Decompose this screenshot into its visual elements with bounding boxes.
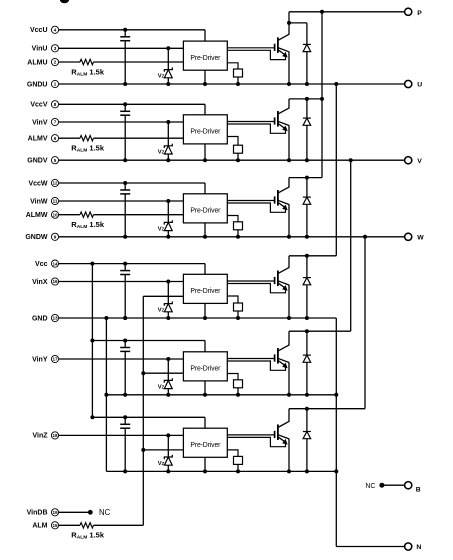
junction zener Y on rail — [166, 393, 170, 397]
junction GND to GND bus — [104, 316, 108, 320]
transistor QY collector arm — [278, 345, 290, 351]
diode DU freewheel — [303, 23, 311, 84]
label VZ — [158, 308, 165, 314]
label RALM 1.5k — [71, 144, 105, 154]
junction pre-driver X riser on rail — [203, 316, 207, 320]
wire ALM feed to Z pre-driver — [143, 449, 183, 451]
wire QW collector jog to P bus — [289, 177, 322, 179]
resistor sense network of Y — [227, 374, 242, 397]
wire VinX line — [59, 281, 184, 283]
node GNDW pin — [25, 233, 58, 241]
diode DZ freewheel — [303, 409, 311, 472]
svg-text:19: 19 — [52, 510, 58, 515]
junction W rail to W bus — [363, 235, 367, 239]
junction P bus at QV jog — [320, 97, 324, 101]
wire emitter of QU down — [288, 52, 290, 84]
wire collector of QW to P bus — [288, 178, 290, 187]
wire ALMW line right — [94, 214, 184, 216]
junction P rail to P bus — [320, 10, 324, 14]
junction diode DZ on rail — [305, 469, 309, 473]
wire ALM bus vertical — [142, 296, 144, 525]
svg-text:VinW: VinW — [30, 198, 48, 205]
wire VinU line — [59, 47, 184, 49]
svg-text:16: 16 — [52, 279, 58, 284]
terminal P — [405, 8, 423, 17]
wire V bus vertical — [350, 160, 352, 331]
cropped heading bullet — [60, 0, 69, 3]
junction capacitor CY on rail — [123, 393, 127, 397]
diode DV freewheel — [303, 99, 311, 160]
svg-text:Pre-Driver: Pre-Driver — [190, 129, 221, 136]
wire ALMV line right — [94, 137, 184, 139]
transistor QV body bar — [277, 111, 279, 127]
transistor QX collector arm — [278, 267, 290, 273]
svg-text:Vcc: Vcc — [35, 261, 48, 268]
junction VinY at zener — [166, 357, 170, 361]
junction pre-driver U riser on rail — [203, 82, 207, 86]
node ALMU pin — [27, 58, 58, 66]
wire GNDV / phase V rail — [59, 159, 405, 161]
capacitor CY — [120, 341, 130, 395]
junction Z feed at capacitor — [123, 415, 127, 419]
junction VinZ at zener — [166, 433, 170, 437]
pre-driver block V high-side — [183, 115, 227, 144]
wire ALMU line left — [59, 61, 80, 63]
svg-text:VZ: VZ — [158, 384, 165, 390]
junction GND at capacitor — [123, 316, 127, 320]
wire gate drive to QX — [227, 280, 274, 282]
junction zener X on rail — [166, 316, 170, 320]
svg-text:Pre-Driver: Pre-Driver — [190, 208, 221, 215]
transistor QY sense-emitter arrow — [278, 360, 288, 368]
node VccW pin — [28, 179, 58, 187]
junction diode DV on rail — [305, 158, 309, 162]
svg-text:VZ: VZ — [158, 74, 165, 80]
zener VZ U — [164, 48, 172, 84]
diode DW freewheel — [303, 178, 311, 237]
wire QZ collector jog to W bus — [289, 408, 365, 410]
capacitor CU — [120, 30, 130, 84]
wire N rail — [336, 546, 404, 548]
wire kelvin emitter return of QV — [227, 124, 285, 133]
junction diode DZ top — [305, 407, 309, 411]
svg-text:15: 15 — [52, 523, 58, 528]
resistor RALM V — [80, 136, 94, 141]
wire gate drive to QV — [227, 121, 274, 123]
junction emitter of QZ on rail — [287, 469, 291, 473]
wire Z emitter rail — [106, 470, 336, 472]
label VZ — [158, 226, 165, 232]
wire VinDB stub — [59, 511, 91, 513]
junction VinX at zener — [166, 280, 170, 284]
junction pre-driver V riser on rail — [203, 158, 207, 162]
junction capacitor CW on rail — [123, 235, 127, 239]
svg-text:RALM 1.5k: RALM 1.5k — [71, 67, 105, 77]
svg-text:1: 1 — [54, 82, 57, 87]
svg-text:Pre-Driver: Pre-Driver — [190, 288, 221, 295]
svg-text:7: 7 — [54, 120, 57, 125]
svg-text:ALMU: ALMU — [27, 59, 47, 66]
junction diode DX top — [305, 254, 309, 258]
svg-text:8: 8 — [54, 102, 57, 107]
svg-text:13: 13 — [52, 316, 58, 321]
node ALM pin — [32, 522, 58, 530]
resistor RALM W — [80, 212, 94, 217]
svg-text:18: 18 — [52, 433, 58, 438]
wire QY collector jog to V bus — [289, 330, 351, 332]
wire QV collector jog to P bus — [289, 98, 322, 100]
wire pre-driver Z ground riser — [204, 457, 206, 471]
transistor QW sense-emitter arrow — [278, 202, 288, 210]
wire Z Vcc feed — [92, 417, 205, 428]
pre-driver block W high-side — [183, 194, 227, 223]
svg-text:GNDV: GNDV — [27, 158, 48, 165]
wire kelvin emitter return of QU — [227, 50, 285, 59]
label RALM 1.5k — [71, 67, 105, 77]
svg-text:3: 3 — [54, 46, 57, 51]
svg-text:VinV: VinV — [32, 119, 48, 126]
label VZ — [158, 461, 165, 467]
label NC at B — [365, 483, 375, 490]
wire kelvin emitter return of QY — [227, 361, 285, 370]
wire emitter of QY down — [288, 362, 290, 395]
node VccV pin — [30, 101, 58, 109]
wire VinZ line — [59, 434, 184, 436]
node VccU pin — [30, 26, 59, 34]
junction zener W on rail — [166, 235, 170, 239]
wire P bus vertical — [321, 12, 323, 178]
junction pre-driver W riser on rail — [203, 235, 207, 239]
wire GNDU / phase U rail — [59, 83, 405, 85]
junction VccW at capacitor — [123, 181, 127, 185]
wire pre-driver Y ground riser — [204, 381, 206, 395]
transistor QU emitter arm — [278, 48, 289, 52]
transistor QW emitter arm — [278, 200, 289, 204]
node ALMV pin — [28, 135, 59, 143]
junction VinW at zener — [166, 199, 170, 203]
junction pre-driver Y riser on rail — [203, 393, 207, 397]
wire QX collector jog to U bus — [289, 255, 336, 257]
transistor QV sense-emitter arrow — [278, 123, 288, 131]
label NC at VinDB — [99, 508, 111, 517]
svg-text:VZ: VZ — [158, 308, 165, 314]
transistor QY gate bar — [274, 354, 276, 361]
junction Y rail to GND-N vertical — [334, 393, 338, 397]
svg-text:ALM: ALM — [32, 523, 47, 530]
svg-text:VccW: VccW — [28, 180, 47, 187]
transistor QW gate bar — [274, 196, 276, 203]
capacitor CW — [120, 183, 130, 237]
svg-text:VZ: VZ — [158, 226, 165, 232]
resistor RALM low-side — [80, 523, 94, 528]
pre-driver block Y low-side — [183, 352, 227, 381]
wire VinV line — [59, 121, 184, 123]
zener VZ V — [164, 122, 172, 160]
svg-text:17: 17 — [52, 357, 58, 362]
svg-text:9: 9 — [54, 235, 57, 240]
transistor QV collector arm — [278, 108, 290, 114]
svg-text:VZ: VZ — [158, 461, 165, 467]
label VZ — [158, 74, 165, 80]
svg-text:Pre-Driver: Pre-Driver — [190, 442, 221, 449]
transistor QZ sense-emitter arrow — [278, 437, 288, 445]
pre-driver block X low-side — [183, 274, 227, 303]
junction V rail to V bus — [349, 158, 353, 162]
node VinDB NC dot — [88, 510, 93, 515]
junction diode DY on rail — [305, 393, 309, 397]
junction emitter of QV on rail — [287, 158, 291, 162]
wire pre-driver V ground riser — [204, 144, 206, 160]
junction VccV at capacitor — [123, 102, 127, 106]
svg-text:2: 2 — [54, 60, 57, 65]
wire GND line — [59, 317, 337, 319]
svg-text:VinU: VinU — [32, 46, 48, 53]
resistor sense network of U — [227, 63, 242, 86]
wire collector of QX to U bus — [288, 256, 290, 268]
wire ALM feed to Y pre-driver — [143, 372, 183, 374]
node Vcc pin — [35, 260, 59, 268]
junction Z rail to GND-N vertical — [334, 469, 338, 473]
transistor QW body bar — [277, 190, 279, 206]
wire gate drive to QZ — [227, 434, 274, 436]
junction GND bus to Y rail — [104, 393, 108, 397]
capacitor CZ — [120, 417, 130, 471]
label RALM 1.5k — [71, 531, 105, 541]
svg-text:B: B — [416, 486, 421, 493]
node VinU pin — [32, 45, 59, 53]
svg-text:14: 14 — [52, 261, 58, 266]
junction diode DU on rail — [305, 82, 309, 86]
svg-text:VinX: VinX — [32, 279, 48, 286]
wire ALMV line left — [59, 137, 80, 139]
wire kelvin emitter return of QW — [227, 203, 285, 212]
wire collector of QV to P bus — [288, 99, 290, 108]
node GNDV pin — [27, 157, 58, 165]
transistor QZ collector arm — [278, 421, 290, 427]
junction zener U on rail — [166, 82, 170, 86]
wire NC to B — [382, 484, 405, 486]
svg-text:VinDB: VinDB — [27, 510, 48, 517]
transistor QW collector arm — [278, 187, 290, 193]
junction emitter of QU on rail — [287, 82, 291, 86]
terminal B — [405, 482, 421, 494]
wire VccU line — [59, 30, 205, 41]
node VinX pin — [32, 278, 59, 286]
svg-text:RALM 1.5k: RALM 1.5k — [71, 144, 105, 154]
resistor sense network of W — [227, 216, 242, 239]
wire Y Vcc feed — [92, 341, 205, 352]
junction emitter of QW on rail — [287, 235, 291, 239]
transistor QX gate bar — [274, 277, 276, 284]
svg-text:U: U — [417, 82, 422, 89]
transistor QV emitter arm — [278, 121, 289, 125]
svg-text:5: 5 — [54, 158, 57, 163]
resistor sense network of Z — [227, 450, 242, 474]
junction VinU at zener — [166, 46, 170, 50]
junction VinV at zener — [166, 120, 170, 124]
svg-text:4: 4 — [54, 28, 57, 33]
junction emitter of QX on rail — [287, 316, 291, 320]
svg-text:VinZ: VinZ — [32, 433, 48, 440]
wire GND bus vertical — [105, 318, 107, 471]
wire collector of QY to V bus — [288, 331, 290, 345]
junction diode DY top — [305, 329, 309, 333]
wire emitter of QZ down — [288, 439, 290, 472]
label VZ — [158, 150, 165, 156]
wire VinY line — [59, 358, 184, 360]
junction Vcc to Vcc bus — [90, 262, 94, 266]
junction Y feed at capacitor — [123, 339, 127, 343]
transistor QX emitter arm — [278, 281, 289, 285]
wire ALMU line right — [94, 61, 184, 63]
transistor QU collector arm — [278, 34, 290, 40]
svg-text:VccU: VccU — [30, 27, 48, 34]
junction diode DW on rail — [305, 235, 309, 239]
node VinDB pin — [27, 509, 59, 517]
wire VccW line — [59, 183, 205, 194]
wire emitter of QW down — [288, 204, 290, 237]
wire pre-driver W ground riser — [204, 223, 206, 237]
junction capacitor CU on rail — [123, 82, 127, 86]
svg-text:W: W — [417, 234, 424, 241]
junction Vcc bus to Z feed — [90, 415, 94, 419]
junction VccU at capacitor — [123, 28, 127, 32]
transistor QY emitter arm — [278, 358, 289, 362]
svg-text:P: P — [417, 10, 422, 17]
svg-text:VZ: VZ — [158, 150, 165, 156]
transistor QU sense-emitter arrow — [278, 50, 288, 58]
svg-text:6: 6 — [54, 136, 57, 141]
wire ALMW line left — [59, 214, 80, 216]
junction QU collector node — [287, 21, 291, 25]
wire ALM feed to X pre-driver — [143, 295, 183, 297]
svg-text:NC: NC — [99, 508, 111, 517]
svg-text:11: 11 — [53, 199, 58, 204]
zener VZ Y — [164, 359, 172, 395]
svg-text:ALMW: ALMW — [26, 212, 48, 219]
junction capacitor CV on rail — [123, 158, 127, 162]
transistor QU body bar — [277, 37, 279, 53]
svg-text:V: V — [417, 158, 422, 165]
wire pre-driver U ground riser — [204, 70, 206, 84]
wire Vcc bus vertical — [91, 264, 93, 418]
junction diode DV top — [305, 97, 309, 101]
transistor QZ gate bar — [274, 431, 276, 438]
wire gate drive to QU — [227, 47, 274, 49]
wire W bus vertical — [364, 237, 366, 409]
wire gate drive to QY — [227, 358, 274, 360]
node NC dot at B — [379, 483, 384, 488]
node VinW pin — [30, 197, 58, 205]
resistor RALM U — [80, 59, 94, 64]
svg-text:10: 10 — [52, 212, 58, 217]
wire GND to N vertical — [335, 318, 337, 547]
terminal V — [405, 157, 423, 165]
node GND pin — [32, 314, 59, 322]
wire gate drive to QW — [227, 200, 274, 202]
junction capacitor CZ on rail — [123, 469, 127, 473]
junction capacitor CX on rail — [123, 316, 127, 320]
wire ALM line right — [94, 524, 144, 526]
pre-driver block Z low-side — [183, 428, 227, 457]
transistor QZ emitter arm — [278, 435, 289, 439]
node VinZ pin — [32, 432, 58, 440]
transistor QX sense-emitter arrow — [278, 283, 288, 291]
zener VZ X — [164, 282, 172, 319]
node VinV pin — [32, 118, 59, 126]
capacitor CX — [120, 264, 130, 318]
resistor sense network of X — [227, 296, 242, 320]
junction Vcc bus to Y feed — [90, 339, 94, 343]
junction zener V on rail — [166, 158, 170, 162]
wire VinW line — [59, 200, 184, 202]
svg-text:Pre-Driver: Pre-Driver — [190, 366, 221, 373]
wire pre-driver X ground riser — [204, 303, 206, 318]
svg-text:ALMV: ALMV — [28, 136, 48, 143]
svg-text:Pre-Driver: Pre-Driver — [190, 55, 221, 62]
junction Vcc at capacitor — [123, 262, 127, 266]
junction ALM bus to Y feed — [141, 371, 145, 375]
svg-text:GNDU: GNDU — [27, 81, 48, 88]
svg-text:VccV: VccV — [30, 102, 47, 109]
pre-driver block U high-side — [183, 41, 227, 70]
junction emitter of QY on rail — [287, 393, 291, 397]
junction zener Z on rail — [166, 469, 170, 473]
junction ALM bus to Z feed — [141, 448, 145, 452]
wire collector of QZ to W bus — [288, 409, 290, 422]
node ALMW pin — [26, 211, 59, 219]
terminal U — [405, 80, 423, 88]
svg-text:VinY: VinY — [32, 356, 48, 363]
transistor QX body bar — [277, 271, 279, 287]
terminal N — [405, 543, 422, 551]
capacitor CV — [120, 104, 130, 160]
terminal W — [405, 233, 425, 241]
svg-text:NC: NC — [365, 483, 375, 490]
label VZ — [158, 384, 165, 390]
transistor QU gate bar — [274, 44, 276, 51]
transistor QZ body bar — [277, 424, 279, 440]
zener VZ W — [164, 201, 172, 237]
zener VZ Z — [164, 435, 172, 471]
wire collector of QU to P rail — [288, 23, 290, 34]
wire Vcc line — [59, 264, 205, 275]
wire P rail — [289, 11, 405, 13]
diode DY freewheel — [303, 331, 311, 395]
junction pre-driver Z riser on rail — [203, 469, 207, 473]
wire diode DU jog — [289, 22, 307, 24]
node VinY pin — [32, 355, 59, 363]
node GNDU pin — [27, 80, 59, 88]
wire emitter of QX down — [288, 285, 290, 318]
svg-text:N: N — [416, 544, 421, 551]
transistor QY body bar — [277, 348, 279, 364]
diode DX freewheel — [303, 256, 311, 318]
label RALM 1.5k — [71, 220, 105, 230]
wire U bus vertical — [335, 84, 337, 256]
wire emitter of QV down — [288, 125, 290, 160]
wire Y emitter rail — [106, 394, 336, 396]
wire QU collector to P rail — [288, 12, 290, 23]
junction U rail to U bus — [334, 82, 338, 86]
svg-text:RALM 1.5k: RALM 1.5k — [71, 220, 105, 230]
svg-text:GNDW: GNDW — [25, 234, 48, 241]
svg-text:12: 12 — [52, 181, 58, 186]
junction diode DX on rail — [305, 316, 309, 320]
svg-text:GND: GND — [32, 315, 48, 322]
svg-text:RALM 1.5k: RALM 1.5k — [71, 531, 105, 541]
wire VccV line — [59, 104, 205, 115]
